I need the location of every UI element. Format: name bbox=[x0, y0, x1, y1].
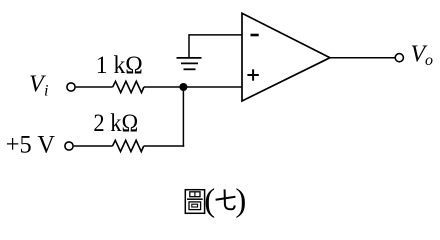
svg-text:2 kΩ: 2 kΩ bbox=[93, 110, 138, 137]
svg-text:o: o bbox=[425, 52, 433, 69]
svg-text:): ) bbox=[235, 183, 246, 219]
svg-text:1 kΩ: 1 kΩ bbox=[96, 52, 143, 79]
svg-text:(: ( bbox=[204, 183, 215, 219]
svg-text:+5 V: +5 V bbox=[6, 131, 55, 158]
svg-text:i: i bbox=[44, 83, 48, 100]
